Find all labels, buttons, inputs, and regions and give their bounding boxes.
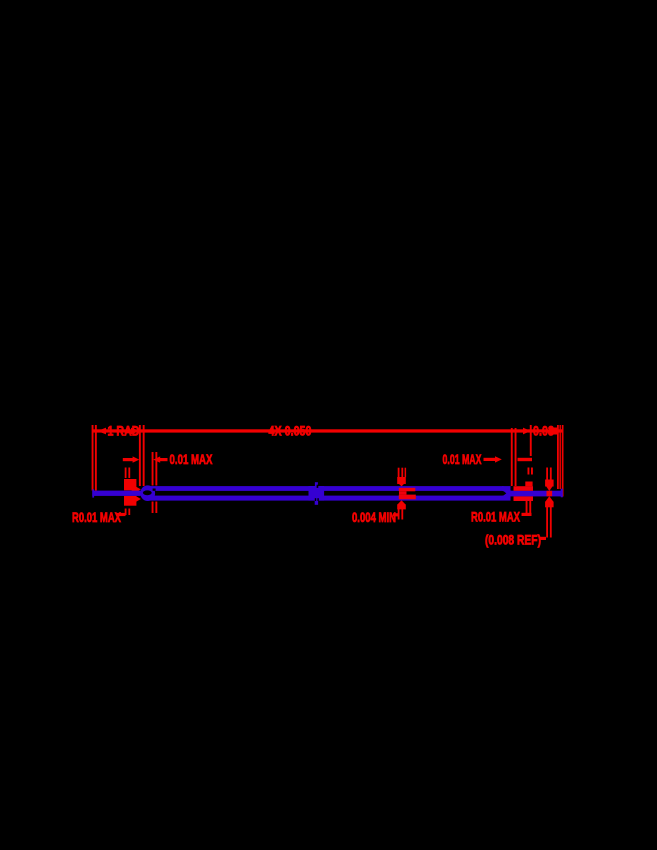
left thickness dim stems below xyxy=(125,509,127,516)
part: right taper bottom xyxy=(502,493,512,498)
leader dash bottom-right label to stems xyxy=(522,513,532,516)
svg-text:0.01 MAX: 0.01 MAX xyxy=(443,452,482,467)
part: left solid bar xyxy=(92,491,140,496)
center thickness dim stems below xyxy=(398,509,400,519)
extension line curl-left pair xyxy=(139,425,141,486)
right thickness arrowhead down xyxy=(545,480,554,487)
arrowhead left of 1 RAD xyxy=(98,428,107,435)
part: right solid bar xyxy=(510,491,562,497)
extension line right RAD left xyxy=(530,425,532,456)
right taper stems below xyxy=(526,501,528,515)
break symbol notch top xyxy=(317,485,319,488)
leader dash bottom-left label to stems xyxy=(117,513,126,516)
left thickness lower arrow blob xyxy=(124,496,136,506)
break symbol solid patch xyxy=(309,486,325,501)
break symbol tip below xyxy=(315,500,318,505)
small arrow at curl bottom-left surface xyxy=(132,497,137,501)
leader dash right of taper ext lines xyxy=(518,458,533,461)
right taper overlay dash bottom xyxy=(514,496,534,501)
arrowhead left of top-right label xyxy=(523,428,531,435)
left thickness upper arrow blob xyxy=(124,479,136,490)
part: right taper top xyxy=(502,488,512,493)
svg-text:0.01 MAX: 0.01 MAX xyxy=(170,452,213,467)
dimension line top main xyxy=(92,429,562,432)
svg-text:4X 0.050: 4X 0.050 xyxy=(269,423,312,438)
extension line right end triple xyxy=(557,425,559,489)
break symbol tip above xyxy=(315,482,318,487)
right thickness arrowhead up xyxy=(545,496,554,502)
leader dash lower label to stems xyxy=(540,537,546,540)
extension line taper pair xyxy=(511,428,513,486)
leader arrow pointing right at curl (left side) xyxy=(123,458,134,461)
part: curl (180-degree bend) at left, outer ellipse xyxy=(140,485,155,501)
svg-text:R0.01 MAX: R0.01 MAX xyxy=(72,510,121,525)
break symbol notch bottom right xyxy=(317,498,318,501)
curl free-edge notch on top line xyxy=(153,489,156,491)
svg-text:(0.008 REF): (0.008 REF) xyxy=(485,532,541,547)
leader from right 0.01 MAX to taper xyxy=(484,458,496,461)
break symbol notch bottom left xyxy=(315,498,316,501)
part: bottom surface line xyxy=(150,496,511,501)
center red overlay on bottom line xyxy=(399,495,416,500)
part: curl inner hole xyxy=(143,490,152,495)
center red overlay on top line xyxy=(399,488,416,492)
small stub below right leader xyxy=(528,468,530,475)
left thickness dim stems above xyxy=(125,468,127,479)
arrowhead right of 1 RAD xyxy=(131,428,139,435)
leader arrow pointing left from 0.01 MAX label xyxy=(153,456,160,462)
arrowhead right of top-right label xyxy=(549,428,557,435)
part: right bar end cap tick xyxy=(561,489,563,498)
right taper overlay dash top xyxy=(514,486,534,491)
svg-text:0.004 MIN: 0.004 MIN xyxy=(352,510,396,525)
right thickness dim stems below xyxy=(546,507,548,538)
center red arrow tick between lines xyxy=(399,491,407,494)
small arrow at curl top-left surface xyxy=(132,487,137,491)
center thickness arrowhead up xyxy=(397,500,406,505)
extension line curl-right pair upper xyxy=(152,452,154,486)
right taper stems above xyxy=(525,482,532,487)
part: top surface line xyxy=(150,486,511,491)
center thickness dim stems above xyxy=(398,468,400,478)
leader dash bottom-center label xyxy=(393,513,399,516)
center thickness arrowhead down xyxy=(397,477,406,484)
part: left bar end cap tick xyxy=(92,489,94,497)
right thickness dim stems above xyxy=(546,468,548,481)
extension line curl-right pair lower xyxy=(152,502,154,514)
right thickness red tick across bar xyxy=(547,491,553,497)
svg-text:R0.01 MAX: R0.01 MAX xyxy=(471,510,520,525)
extension line left pair A xyxy=(92,425,94,491)
